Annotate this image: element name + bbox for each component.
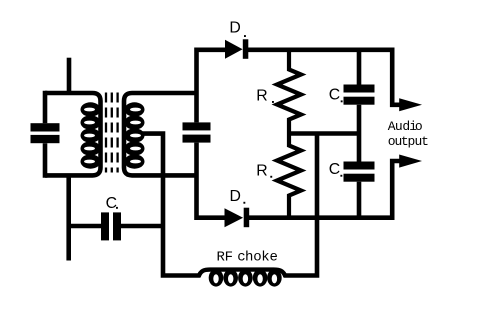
- svg-text:C: C: [106, 195, 117, 212]
- svg-text:R: R: [256, 162, 267, 179]
- svg-text:R: R: [256, 87, 267, 104]
- svg-text:D: D: [229, 19, 240, 36]
- svg-text:RF choke: RF choke: [217, 250, 278, 266]
- svg-text:output: output: [388, 134, 429, 149]
- svg-text:Audio: Audio: [388, 119, 423, 134]
- svg-text:D: D: [230, 188, 241, 205]
- svg-text:C: C: [329, 161, 340, 178]
- svg-text:C: C: [329, 86, 340, 103]
